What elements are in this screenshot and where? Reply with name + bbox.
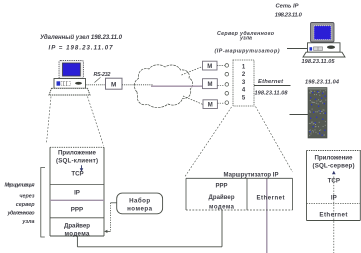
modem M1 [203, 61, 218, 70]
svg-text:198.23.11.04: 198.23.11.04 [305, 80, 340, 86]
svg-text:PPP: PPP [215, 184, 227, 190]
svg-text:Маршрутизатор IP: Маршрутизатор IP [224, 173, 279, 179]
svg-text:Ethernet: Ethernet [319, 211, 347, 218]
wire M1 to port 1 [217, 65, 225, 67]
svg-text:Приложение: Приложение [315, 155, 354, 162]
svg-text:Ethernet: Ethernet [257, 195, 285, 201]
ethernet wire vertical [266, 178, 268, 253]
port connector 2 [225, 72, 229, 76]
svg-text:198.23.11.05: 198.23.11.05 [302, 59, 336, 65]
wire physical link stack to router [77, 210, 222, 247]
computer PC2 system unit [308, 43, 341, 52]
wire cloud to modem M1 [182, 67, 203, 76]
svg-text:(IP-маршрутизатор): (IP-маршрутизатор) [215, 49, 280, 55]
svg-text:Набор: Набор [129, 198, 150, 205]
svg-text:через: через [19, 193, 34, 199]
svg-text:узла: узла [239, 36, 252, 42]
port connector 5 [225, 101, 229, 105]
computer PC2 base [303, 52, 345, 57]
wire zoom funnel PC1 left [47, 97, 52, 144]
divider IP/PPP [50, 199, 104, 201]
svg-text:(SQL-клиент): (SQL-клиент) [56, 158, 98, 165]
IP router box [186, 173, 293, 210]
svg-text:M: M [208, 82, 213, 88]
svg-text:198.23.11.0: 198.23.11.0 [275, 13, 303, 19]
svg-text:Приложение: Приложение [58, 150, 97, 157]
computer PC1 base [49, 88, 90, 95]
arrow up to application [332, 171, 336, 174]
wire zoom funnel PC1 right [88, 97, 104, 146]
modem M client [106, 78, 123, 89]
dashed data path vertical right stack [333, 177, 335, 253]
wire PC1 to modem [86, 84, 106, 86]
server protocol stack box [307, 151, 361, 221]
svg-text:Удаленный узел 198.23.11.0: Удаленный узел 198.23.11.0 [40, 34, 123, 41]
remote access server RAS box [233, 60, 254, 106]
svg-text:Маршрутизация: Маршрутизация [5, 182, 36, 188]
cloud telephone network [134, 65, 192, 108]
divider PPP/driver [50, 217, 104, 219]
svg-text:модема: модема [209, 204, 235, 210]
modem M2 [203, 79, 218, 89]
wire cloud to modem M3 [183, 96, 203, 105]
wire modem to cloud [122, 84, 153, 86]
label routing note [5, 182, 36, 225]
svg-text:M: M [111, 82, 116, 89]
svg-text:Сеть IP: Сеть IP [275, 4, 298, 10]
svg-text:Драйвер: Драйвер [64, 223, 90, 230]
wire M3 to port 5 [217, 102, 224, 104]
svg-text:IP: IP [331, 194, 337, 201]
svg-text:узла: узла [21, 219, 34, 225]
svg-text:M: M [207, 64, 212, 70]
wire PC2 to ethernet [287, 48, 308, 50]
svg-text:(SQL-сервер): (SQL-сервер) [313, 162, 355, 169]
svg-text:198.23.11.08: 198.23.11.08 [255, 90, 289, 96]
wire M2 to port 3 [218, 84, 225, 86]
svg-text:M: M [208, 103, 213, 109]
wire tower to ethernet [290, 114, 309, 116]
port connector 4 [225, 92, 229, 96]
wire dial-up connection through cloud [151, 85, 203, 87]
wire zoom funnel RAS left [185, 107, 232, 177]
svg-text:PPP: PPP [71, 207, 83, 214]
arrow down to TCP [80, 165, 84, 171]
svg-text:IP = 198.23.11.07: IP = 198.23.11.07 [49, 45, 114, 52]
wire Ethernet segment [254, 85, 291, 87]
svg-text:TCP: TCP [328, 178, 340, 185]
divider TCP/IP [50, 184, 104, 186]
modem M3 [203, 100, 217, 109]
computer PC1 system unit [54, 79, 86, 89]
leader line RS-232 [95, 77, 101, 82]
svg-text:IP: IP [74, 190, 80, 197]
port connector 3 [225, 83, 229, 87]
svg-text:RS-232: RS-232 [94, 72, 111, 78]
dial number callout box [117, 193, 163, 214]
wire zoom funnel RAS right [256, 107, 293, 173]
computer PC1 monitor [59, 61, 84, 79]
svg-text:удаленного: удаленного [7, 211, 36, 217]
svg-text:TCP: TCP [71, 171, 83, 178]
wire dial number to modem driver [104, 203, 117, 233]
svg-text:номера: номера [127, 205, 153, 212]
computer PC2 monitor [311, 23, 335, 43]
port connector 1 [225, 64, 229, 68]
svg-text:сервер: сервер [16, 202, 35, 208]
server tower [308, 88, 327, 139]
client protocol stack box [50, 147, 104, 236]
bracket routing group [41, 168, 45, 238]
svg-text:Ethernet: Ethernet [258, 79, 284, 85]
svg-text:Драйвер: Драйвер [209, 194, 235, 201]
